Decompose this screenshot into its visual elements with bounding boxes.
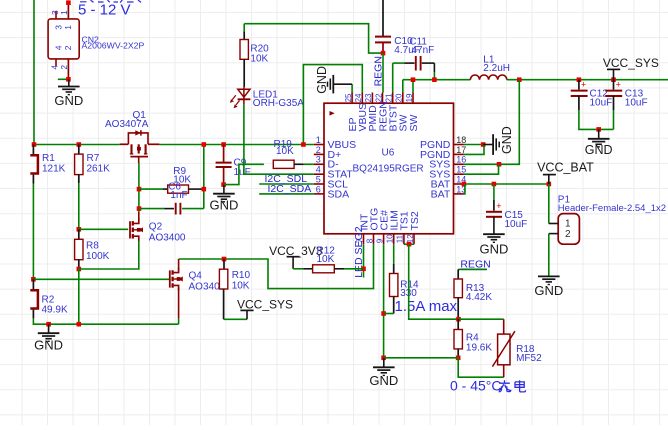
wire Q2 source to R8	[79, 241, 139, 269]
svg-text:+: +	[496, 201, 501, 211]
svg-text:TS2: TS2	[409, 211, 421, 230]
svg-text:22: 22	[374, 93, 383, 102]
svg-text:10K: 10K	[276, 146, 294, 157]
wire pin16 SYS	[464, 163, 499, 165]
svg-text:10: 10	[386, 234, 395, 243]
ground bottom middle	[383, 358, 385, 368]
svg-text:4: 4	[316, 165, 321, 175]
capacitor C9	[223, 145, 225, 163]
svg-text:47nF: 47nF	[412, 45, 435, 56]
node R13 R4 TS	[456, 317, 461, 322]
svg-text:VCC_BAT: VCC_BAT	[537, 160, 594, 174]
resistor R10	[223, 259, 225, 269]
svg-text:25: 25	[344, 93, 353, 102]
node rail R7	[77, 142, 82, 147]
P1 pin1 wire	[548, 184, 550, 224]
capacitor C13	[613, 80, 615, 90]
svg-text:49.9K: 49.9K	[42, 304, 68, 315]
svg-text:BQ24195RGER: BQ24195RGER	[353, 164, 424, 175]
resistor R13	[457, 269, 459, 279]
svg-text:100K: 100K	[86, 251, 110, 262]
capacitor C12	[578, 80, 580, 90]
svg-text:R10: R10	[232, 270, 251, 281]
svg-text:10uF: 10uF	[625, 97, 648, 108]
node CE R14	[381, 311, 386, 316]
resistor R2	[32, 279, 34, 289]
svg-text:U6: U6	[382, 147, 395, 158]
svg-text:23: 23	[364, 93, 373, 102]
node rail R9 right	[202, 142, 207, 147]
node SYS	[497, 162, 502, 167]
ground under C15	[493, 217, 495, 234]
node rail C9	[221, 142, 226, 147]
svg-text:3: 3	[316, 155, 321, 165]
wire pin17 PGND	[464, 145, 484, 155]
svg-text:15: 15	[456, 165, 466, 175]
svg-text:VCC_SYS: VCC_SYS	[603, 56, 659, 70]
svg-text:10uF: 10uF	[505, 219, 528, 230]
transistor Q2 AO3400	[129, 221, 131, 238]
svg-text:21: 21	[385, 93, 394, 102]
svg-text:10uF: 10uF	[590, 97, 613, 108]
svg-text:3: 3	[53, 25, 63, 30]
resistor R20	[243, 24, 245, 32]
node C9 bottom	[221, 182, 226, 187]
wire pin8 OTG path	[224, 244, 374, 288]
wire pin24 VBUS elbow	[303, 65, 362, 145]
svg-text:1uF: 1uF	[234, 167, 251, 178]
node R7 R8 gate	[77, 227, 82, 232]
wire Q1 gate to R9 node	[138, 163, 140, 212]
node gnd rail left	[46, 322, 51, 327]
wire REGN stub	[458, 268, 487, 270]
svg-text:9: 9	[375, 238, 384, 243]
connector CN2	[48, 19, 79, 59]
svg-text:GND: GND	[479, 242, 508, 257]
svg-text:R8: R8	[86, 241, 99, 252]
wire gnd stub	[58, 78, 69, 80]
wire Q2 gate	[79, 228, 128, 230]
svg-text:+: +	[616, 80, 621, 90]
svg-text:1.5A max: 1.5A max	[395, 298, 458, 315]
svg-text:12: 12	[406, 234, 415, 243]
svg-text:R7: R7	[87, 153, 100, 164]
node BAT C15	[492, 182, 497, 187]
svg-text:2.2uH: 2.2uH	[483, 63, 510, 74]
ground sideways PGND	[483, 144, 492, 146]
svg-text:1: 1	[63, 25, 73, 30]
wire SW rail right	[507, 79, 668, 81]
wire pin11 pin12 TS	[404, 243, 414, 245]
node SW C11	[432, 77, 437, 82]
svg-text:R1: R1	[42, 153, 55, 164]
node input junction	[66, 0, 71, 5]
svg-text:1: 1	[59, 10, 69, 15]
wire pin25 EP gnd	[351, 84, 353, 92]
svg-text:8: 8	[365, 238, 374, 243]
wire R7 to R8	[78, 183, 80, 229]
node SW pin19	[411, 77, 416, 82]
thermistor R18 MF52	[503, 319, 505, 334]
ground under P1	[538, 275, 560, 277]
wire pin18 PGND	[464, 144, 483, 146]
svg-text:2: 2	[316, 145, 321, 155]
svg-text:19: 19	[405, 93, 414, 102]
wire pin7 INT	[363, 244, 365, 277]
svg-text:11: 11	[396, 234, 405, 243]
svg-text:AO3407A: AO3407A	[105, 119, 149, 130]
svg-text:SW: SW	[408, 114, 420, 131]
resistor R7	[78, 145, 80, 155]
wire Q4 drain lead	[178, 259, 180, 271]
svg-text:2: 2	[59, 65, 69, 70]
svg-text:GND: GND	[534, 283, 563, 298]
wire pin21 BTST	[392, 63, 394, 92]
svg-text:GND: GND	[34, 338, 63, 353]
node R4 gnd rail	[456, 356, 461, 361]
svg-text:4.42K: 4.42K	[466, 292, 492, 303]
svg-text:GND: GND	[315, 66, 329, 94]
wire C9 node to R19	[224, 164, 264, 184]
wire Q2 drain	[138, 212, 140, 222]
wire main VBUS rail	[34, 144, 120, 146]
wire TS to R18	[459, 318, 504, 320]
wire pin13 BAT	[464, 184, 465, 194]
svg-text:GND: GND	[54, 93, 83, 108]
CN2 pin 4 stub	[55, 59, 57, 66]
node BAT pin14	[462, 182, 467, 187]
node R2 top	[31, 277, 36, 282]
wire R8 to ground rail	[78, 269, 80, 324]
wire input rail top	[33, 144, 35, 146]
svg-text:AO3400: AO3400	[149, 232, 186, 243]
svg-text:18: 18	[456, 135, 466, 145]
power flag VCC_SYS top right	[607, 68, 620, 70]
svg-text:261K: 261K	[87, 163, 111, 174]
capacitor C6	[139, 208, 165, 210]
node R10 Q4	[222, 257, 227, 262]
wire Q4 gate	[33, 278, 169, 280]
wire I2C SDA	[259, 193, 314, 195]
svg-text:6: 6	[316, 184, 321, 194]
node C12	[577, 77, 582, 82]
svg-text:VCC_SYS: VCC_SYS	[237, 297, 293, 311]
op-amp U6 BQ24195RGER body	[324, 103, 454, 234]
svg-text:GND: GND	[500, 126, 514, 154]
ground bottom left	[48, 324, 50, 333]
svg-text:SDA: SDA	[328, 188, 350, 200]
svg-text:Q2: Q2	[149, 222, 163, 233]
wire LED1 to STAT	[243, 99, 245, 104]
wire pin19 SW	[412, 80, 414, 93]
ground under C12 C13	[598, 129, 600, 138]
capacitor C10	[382, 0, 384, 36]
svg-text:Header-Female-2.54_1x2: Header-Female-2.54_1x2	[558, 203, 666, 214]
node rail pin24	[301, 142, 306, 147]
svg-text:MF52: MF52	[516, 353, 542, 364]
wire REGN to pin22	[382, 53, 384, 92]
wire Q4 source lead	[178, 287, 180, 318]
svg-text:10K: 10K	[232, 280, 250, 291]
node CN2 gnd junction	[66, 77, 71, 82]
wire bottom gnd rail	[384, 357, 459, 359]
node TS	[407, 242, 412, 247]
svg-text:GND: GND	[585, 143, 613, 157]
svg-text:1nF: 1nF	[170, 190, 187, 201]
wire TS down	[409, 244, 459, 319]
resistor R14	[393, 244, 395, 264]
svg-text:16: 16	[456, 155, 466, 165]
wire BAT rail	[464, 183, 549, 185]
svg-text:0 - 45°C: 0 - 45°C	[450, 378, 502, 394]
ground under CN2	[68, 79, 70, 86]
svg-text:2: 2	[63, 45, 73, 50]
capacitor C15	[493, 184, 495, 200]
svg-text:5: 5	[316, 174, 321, 184]
wire R10 bottom to VCC_SYS flag	[223, 289, 225, 319]
node R9 right	[202, 187, 207, 192]
node BAT VCC_BAT	[547, 182, 552, 187]
svg-text:REGN: REGN	[372, 56, 384, 86]
CN2 pin 2 wire	[67, 59, 69, 79]
wire pin15 SYS	[464, 164, 499, 174]
wire pin9 CE#	[383, 244, 385, 357]
wire bottom left ground rail	[33, 318, 178, 324]
node rail R1	[32, 142, 37, 147]
svg-text:ORH-G35A: ORH-G35A	[253, 98, 304, 109]
node C13 VCC_SYS	[611, 77, 616, 82]
CN2 pin 3 stub	[55, 11, 57, 19]
clipped chinese annotation at top	[80, 0, 141, 3]
wire SYS node	[499, 80, 519, 165]
node C10 REGN	[381, 51, 386, 56]
resistor R1	[32, 145, 34, 155]
node C6 left	[137, 206, 142, 211]
wire SW rail	[403, 79, 471, 81]
svg-text:10K: 10K	[317, 254, 335, 265]
svg-text:A2006WV-2X2P: A2006WV-2X2P	[82, 41, 145, 51]
node PGND	[481, 142, 486, 147]
svg-text:17: 17	[456, 145, 466, 155]
wire VBUS left vertical	[33, 0, 35, 145]
P1 pin2 wire	[549, 233, 558, 235]
svg-text:Q4: Q4	[189, 270, 203, 281]
svg-text:121K: 121K	[42, 163, 66, 174]
ground sideways at EP	[332, 75, 334, 94]
resistor R8	[78, 229, 80, 239]
U6 top pin stubs	[351, 93, 353, 104]
resistor R4	[457, 319, 459, 329]
node gnd rail R8	[77, 322, 82, 327]
svg-text:5 - 12 V: 5 - 12 V	[78, 2, 131, 19]
wire R4 bottom to R18	[458, 358, 504, 377]
svg-text:1: 1	[316, 135, 321, 145]
wire R20 top to C10	[244, 24, 383, 53]
transistor Q4 AO3400	[169, 270, 171, 287]
node R8 Q2 source	[77, 267, 82, 272]
node SW SYS branch	[517, 77, 522, 82]
svg-text:+: +	[581, 80, 586, 90]
svg-text:20: 20	[395, 93, 404, 102]
U6 bottom pin stubs	[363, 234, 365, 245]
node caps gnd	[596, 127, 601, 132]
svg-text:I2C_SDA: I2C_SDA	[268, 183, 312, 195]
svg-text:2: 2	[565, 229, 571, 240]
svg-text:10K: 10K	[250, 53, 268, 64]
svg-text:4: 4	[53, 45, 63, 50]
led LED1 ORH-G35A	[238, 89, 250, 97]
wire R9 C6 right node	[203, 145, 205, 209]
svg-text:24: 24	[354, 93, 363, 102]
node CE gnd rail	[381, 356, 386, 361]
wire pin20 SW	[402, 80, 404, 93]
U6 left pin stubs	[314, 144, 324, 146]
svg-text:19.6K: 19.6K	[466, 343, 492, 354]
svg-text:GND: GND	[209, 197, 238, 212]
svg-text:BAT: BAT	[431, 188, 451, 200]
svg-text:GND: GND	[369, 373, 398, 388]
wire Q4 drain rail	[179, 258, 224, 260]
CN2 pin 1 wire	[67, 3, 69, 19]
node INT R12	[361, 267, 366, 272]
wire I2C SDL	[259, 183, 314, 185]
wire R1 to R2	[32, 184, 34, 280]
node R9 left	[137, 187, 142, 192]
U6 right pin stubs	[454, 144, 464, 146]
ground under C9	[223, 185, 225, 194]
